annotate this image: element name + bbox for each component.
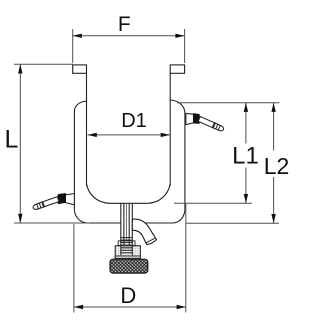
L1 dimension line upper — [245, 103, 247, 144]
L1 arrow bottom — [244, 194, 248, 203]
jacket top-left arc — [74, 101, 86, 112]
drain stem outer walls — [120, 203, 122, 246]
D arrow right — [177, 305, 186, 309]
L1/L2 top reference line — [177, 102, 280, 104]
inner wall right — [169, 73, 171, 186]
jacket top-right arc — [170, 100, 185, 114]
svg-text:F: F — [118, 13, 131, 36]
valve collar ring — [118, 241, 135, 246]
flange tab left — [73, 65, 87, 73]
jacket left wall — [73, 112, 75, 211]
stem thread lines — [121, 238, 133, 253]
left arm cone joint — [65, 194, 74, 205]
D dimension line — [74, 306, 186, 308]
D arrow left — [74, 305, 83, 309]
D1 dimension line — [88, 134, 170, 136]
left arm connector band — [58, 194, 65, 204]
dimension L1 — [174, 103, 280, 204]
right arm barb tube — [198, 116, 225, 132]
jacket bottom-right corner — [172, 211, 185, 223]
D1 arrow right — [161, 133, 170, 137]
svg-text:D: D — [120, 283, 136, 308]
L2 arrow bottom — [271, 214, 275, 223]
flange tab right — [170, 65, 184, 73]
left hose barb arm — [32, 194, 74, 211]
drain stem bore walls — [123, 203, 125, 246]
D1 arrow left — [88, 133, 97, 137]
vessel body group — [73, 65, 185, 246]
knurled knob — [110, 259, 148, 273]
spout — [132, 219, 156, 245]
F dimension line — [73, 35, 185, 37]
L bottom reference line — [14, 222, 89, 224]
jacket bottom line right of stem — [132, 222, 172, 224]
svg-text:L: L — [5, 125, 19, 153]
dimension F — [73, 29, 185, 63]
jacket bottom-left corner — [74, 211, 88, 223]
F extension line right — [184, 29, 186, 63]
svg-text:L1: L1 — [232, 143, 259, 170]
dimension L2 — [186, 103, 279, 224]
spout mouth rim — [146, 238, 155, 243]
right arm connector band — [194, 114, 200, 124]
F extension line left — [72, 29, 74, 63]
dimension D1 — [88, 134, 170, 136]
inner wall left — [86, 73, 88, 186]
L top reference line — [14, 63, 73, 65]
svg-text:D1: D1 — [121, 110, 147, 132]
L2 arrow top — [271, 103, 275, 112]
L1 bottom reference line — [174, 202, 252, 204]
L arrow bottom — [18, 214, 22, 223]
L2 bottom reference line — [186, 222, 279, 224]
L2 dimension line lower — [273, 177, 275, 223]
F arrow left — [73, 34, 82, 38]
L2 dimension line upper — [273, 103, 275, 151]
L dimension line — [19, 64, 21, 223]
threaded bushing — [115, 246, 140, 259]
inner vessel dished bottom — [87, 184, 171, 203]
F arrow right — [175, 34, 184, 38]
right arm cone joint — [186, 113, 194, 124]
svg-text:L2: L2 — [264, 153, 290, 179]
D extension line right — [185, 203, 187, 312]
L1 dimension line lower — [245, 168, 247, 204]
D extension line left — [73, 224, 75, 312]
right hose barb arm — [186, 113, 225, 132]
jacket bottom line left of stem — [88, 222, 121, 224]
dimension D — [74, 203, 186, 312]
dimension L — [14, 64, 89, 223]
L1 arrow top — [244, 103, 248, 112]
L arrow top — [18, 64, 22, 73]
left arm barb tube — [32, 196, 59, 211]
jacket right wall — [184, 114, 186, 211]
